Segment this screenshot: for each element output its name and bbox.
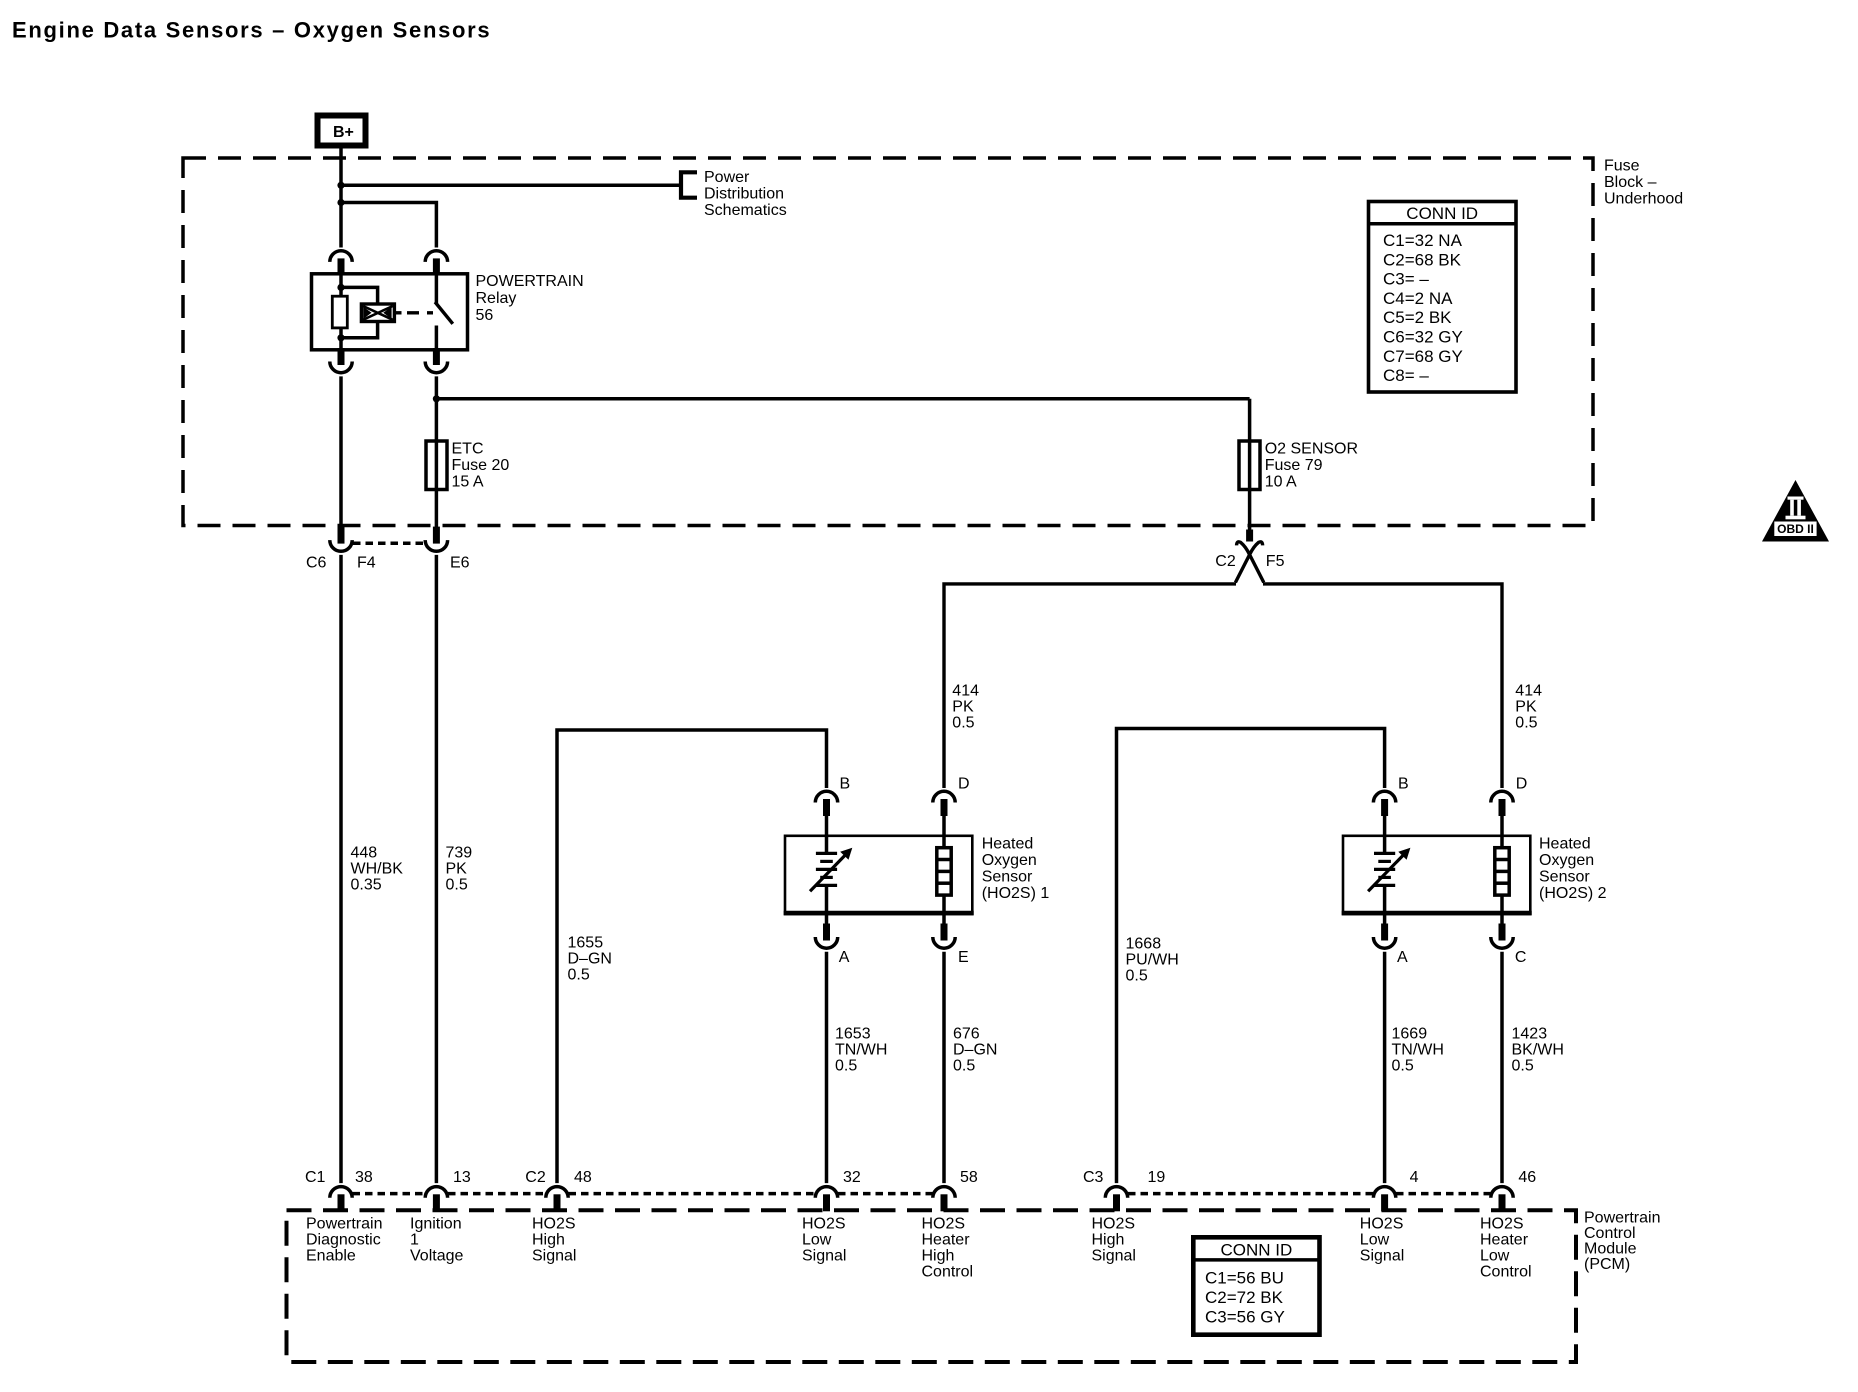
connector: relay switch pin (top right) xyxy=(425,251,447,276)
connector dashed tie C3 group xyxy=(1128,1192,1373,1196)
connector pin D (HO2S1) xyxy=(933,791,955,816)
svg-text:(HO2S) 1: (HO2S) 1 xyxy=(982,885,1050,902)
sensor element (variable cell) HO2S2 xyxy=(1368,853,1405,891)
connector pin A (HO2S2) xyxy=(1373,924,1395,949)
svg-text:0.5: 0.5 xyxy=(952,715,974,732)
svg-text:HO2S: HO2S xyxy=(802,1216,846,1233)
node: coil bottom junction xyxy=(337,334,344,341)
svg-text:F5: F5 xyxy=(1266,553,1285,570)
svg-text:4: 4 xyxy=(1410,1169,1419,1186)
svg-text:Powertrain: Powertrain xyxy=(306,1216,382,1233)
node: coil top junction xyxy=(337,284,344,291)
connector: PCM pin at x=557 xyxy=(546,1187,568,1212)
svg-text:C6=32 GY: C6=32 GY xyxy=(1383,328,1463,347)
wire: coil bottom inside relay xyxy=(339,328,343,350)
wire: junction to relay switch leg xyxy=(341,203,436,248)
svg-text:D: D xyxy=(958,775,970,792)
svg-text:19: 19 xyxy=(1148,1169,1166,1186)
splice X symbol C2/F5 xyxy=(1235,542,1263,583)
svg-text:676: 676 xyxy=(953,1026,980,1043)
wire 1423 BK/WH 0.5 xyxy=(1500,952,1504,1183)
svg-text:0.5: 0.5 xyxy=(446,877,468,894)
svg-text:Signal: Signal xyxy=(1360,1248,1404,1265)
wire: feed across to O2 sensor fuse xyxy=(436,397,1249,401)
connector E6: fuse block output xyxy=(425,527,447,552)
powertrain control module (PCM) dashed box xyxy=(287,1210,1577,1362)
svg-text:C: C xyxy=(1515,949,1527,966)
fuse: ETC Fuse 20 15 A xyxy=(426,441,447,490)
connector: relay output pin (bottom left) xyxy=(330,348,352,373)
svg-text:C3= –: C3= – xyxy=(1383,270,1429,289)
svg-text:B+: B+ xyxy=(333,124,354,141)
connector pin B (HO2S1) xyxy=(815,791,837,816)
wire: B+ down to relay xyxy=(339,149,343,248)
svg-text:HO2S: HO2S xyxy=(532,1216,576,1233)
wire 676 D-GN 0.5 xyxy=(942,952,946,1183)
svg-text:PU/WH: PU/WH xyxy=(1126,952,1179,969)
fuse: O2 SENSOR Fuse 79 10 A xyxy=(1239,441,1260,490)
svg-text:HO2S: HO2S xyxy=(922,1216,966,1233)
svg-text:High: High xyxy=(922,1248,955,1265)
CONN ID table (fuse block underhood) xyxy=(1369,202,1517,393)
svg-text:C1=56 BU: C1=56 BU xyxy=(1205,1268,1284,1287)
svg-text:HO2S: HO2S xyxy=(1480,1216,1524,1233)
wire sensor element to A pin xyxy=(1383,885,1387,924)
wire: relay output down to ETC fuse xyxy=(435,376,439,527)
fuse block - underhood dashed box xyxy=(183,158,1593,526)
svg-text:B: B xyxy=(1398,775,1409,792)
svg-text:(HO2S) 2: (HO2S) 2 xyxy=(1539,885,1607,902)
connector: PCM pin at x=341 xyxy=(330,1187,352,1212)
wire 414 PK 0.5 right branch to HO2S2 D xyxy=(1263,584,1502,788)
svg-text:0.5: 0.5 xyxy=(568,967,590,984)
svg-text:Low: Low xyxy=(802,1232,832,1249)
svg-text:OBD II: OBD II xyxy=(1777,522,1814,536)
wire heater to E pin xyxy=(942,895,946,924)
svg-text:Engine Data Sensors – Oxygen S: Engine Data Sensors – Oxygen Sensors xyxy=(12,18,491,43)
svg-text:HO2S: HO2S xyxy=(1360,1216,1404,1233)
svg-text:B: B xyxy=(840,775,851,792)
svg-text:Low: Low xyxy=(1480,1248,1510,1265)
svg-text:Oxygen: Oxygen xyxy=(982,852,1037,869)
wire 1668 PU/WH 0.5 HO2S high signal to HO2S2 B xyxy=(1117,729,1385,1184)
svg-text:0.35: 0.35 xyxy=(351,877,382,894)
svg-text:15 A: 15 A xyxy=(452,474,484,491)
svg-text:739: 739 xyxy=(446,845,473,862)
connector C2/F5 pin xyxy=(1246,530,1253,542)
svg-text:Control: Control xyxy=(1584,1225,1636,1242)
svg-text:1653: 1653 xyxy=(835,1026,871,1043)
node B+ power feed box xyxy=(318,116,366,146)
wire B pin into HO2S1 xyxy=(825,815,829,854)
svg-text:D–GN: D–GN xyxy=(953,1042,997,1059)
svg-text:C8= –: C8= – xyxy=(1383,366,1429,385)
svg-text:C1=32 NA: C1=32 NA xyxy=(1383,231,1463,250)
node: junction to power distribution xyxy=(337,182,344,189)
connector C6/F4: fuse block output xyxy=(330,527,352,552)
wire heater to C pin xyxy=(1500,895,1504,924)
svg-text:Enable: Enable xyxy=(306,1248,356,1265)
connector: PCM pin at x=1502 xyxy=(1491,1187,1513,1212)
wire 1655 D-GN 0.5 HO2S high signal to HO2S1 B xyxy=(557,730,827,1183)
relay coil element (box with X) xyxy=(361,304,394,322)
svg-text:C6: C6 xyxy=(306,555,327,572)
svg-text:E6: E6 xyxy=(450,555,470,572)
svg-text:(PCM): (PCM) xyxy=(1584,1256,1630,1273)
svg-text:TN/WH: TN/WH xyxy=(1392,1042,1444,1059)
heated oxygen sensor (HO2S) 1 box xyxy=(785,836,972,914)
connector dashed tie C1-C2 group xyxy=(353,1192,426,1196)
OBD II symbol xyxy=(1762,480,1829,542)
svg-text:HO2S: HO2S xyxy=(1092,1216,1136,1233)
wire 1653 TN/WH 0.5 xyxy=(825,952,829,1183)
svg-text:Underhood: Underhood xyxy=(1604,191,1683,208)
svg-text:BK/WH: BK/WH xyxy=(1512,1042,1564,1059)
svg-text:Diagnostic: Diagnostic xyxy=(306,1232,381,1249)
svg-text:D–GN: D–GN xyxy=(568,951,612,968)
svg-text:Fuse 79: Fuse 79 xyxy=(1265,457,1323,474)
svg-text:Control: Control xyxy=(1480,1264,1532,1281)
connector pin D (HO2S2) xyxy=(1491,791,1513,816)
svg-text:PK: PK xyxy=(446,861,468,878)
node: junction to relay switch xyxy=(337,199,344,206)
svg-text:C4=2 NA: C4=2 NA xyxy=(1383,289,1453,308)
svg-text:32: 32 xyxy=(843,1169,861,1186)
svg-text:Signal: Signal xyxy=(802,1248,846,1265)
svg-text:C2=68 BK: C2=68 BK xyxy=(1383,250,1462,269)
svg-text:Block –: Block – xyxy=(1604,174,1657,191)
svg-text:1: 1 xyxy=(410,1232,419,1249)
connector pin A (HO2S1) xyxy=(815,924,837,949)
svg-text:PK: PK xyxy=(1515,699,1537,716)
svg-text:WH/BK: WH/BK xyxy=(351,861,404,878)
svg-text:Oxygen: Oxygen xyxy=(1539,852,1594,869)
svg-text:13: 13 xyxy=(453,1169,471,1186)
svg-text:1655: 1655 xyxy=(568,935,604,952)
connector pin E (HO2S1) xyxy=(933,924,955,949)
connector: PCM pin at x=436.4 xyxy=(425,1187,447,1212)
svg-text:D: D xyxy=(1516,775,1528,792)
svg-text:POWERTRAIN: POWERTRAIN xyxy=(476,273,584,290)
svg-text:Signal: Signal xyxy=(532,1248,576,1265)
connector: relay output pin (bottom right) xyxy=(425,348,447,373)
connector: relay coil pin (top left) xyxy=(330,251,352,276)
svg-text:Voltage: Voltage xyxy=(410,1248,463,1265)
svg-text:Relay: Relay xyxy=(476,290,517,307)
svg-text:414: 414 xyxy=(1515,683,1542,700)
svg-text:C3: C3 xyxy=(1083,1169,1104,1186)
svg-text:A: A xyxy=(839,949,850,966)
svg-text:C5=2 BK: C5=2 BK xyxy=(1383,308,1452,327)
svg-text:Sensor: Sensor xyxy=(982,869,1033,886)
sensor element (variable cell) HO2S1 xyxy=(810,853,847,891)
svg-text:Fuse 20: Fuse 20 xyxy=(452,457,510,474)
wire: coil top inside relay xyxy=(339,274,343,296)
CONN ID table (PCM) xyxy=(1193,1237,1319,1334)
connector pin B (HO2S2) xyxy=(1373,791,1395,816)
svg-text:1423: 1423 xyxy=(1512,1026,1548,1043)
svg-text:Signal: Signal xyxy=(1092,1248,1136,1265)
svg-text:O2 SENSOR: O2 SENSOR xyxy=(1265,441,1358,458)
switch: relay contact xyxy=(435,274,439,304)
svg-text:PK: PK xyxy=(952,699,974,716)
svg-text:Heated: Heated xyxy=(982,835,1034,852)
wire: O2 fuse drop xyxy=(1248,399,1252,532)
wire D pin into HO2S2 xyxy=(1500,815,1504,849)
wire sensor element to A pin xyxy=(825,885,829,924)
wire D pin into HO2S1 xyxy=(942,815,946,849)
svg-text:C7=68 GY: C7=68 GY xyxy=(1383,347,1463,366)
svg-text:0.5: 0.5 xyxy=(1515,715,1537,732)
svg-text:48: 48 xyxy=(574,1169,592,1186)
connector: PCM pin at x=826.5 xyxy=(815,1187,837,1212)
svg-text:Sensor: Sensor xyxy=(1539,869,1590,886)
wire: to power distribution schematics xyxy=(341,184,680,188)
svg-text:Fuse: Fuse xyxy=(1604,158,1640,175)
svg-text:C3=56 GY: C3=56 GY xyxy=(1205,1308,1285,1327)
off-page bracket: Power Distribution Schematics xyxy=(681,172,697,197)
svg-text:38: 38 xyxy=(355,1169,373,1186)
svg-text:Schematics: Schematics xyxy=(704,202,787,219)
svg-text:C1: C1 xyxy=(305,1169,326,1186)
svg-text:Heater: Heater xyxy=(922,1232,971,1249)
svg-text:448: 448 xyxy=(351,845,378,862)
svg-text:C2: C2 xyxy=(525,1169,546,1186)
svg-text:A: A xyxy=(1397,949,1408,966)
svg-text:0.5: 0.5 xyxy=(835,1058,857,1075)
svg-text:Control: Control xyxy=(922,1264,974,1281)
svg-text:CONN ID: CONN ID xyxy=(1221,1240,1293,1259)
svg-text:Heated: Heated xyxy=(1539,835,1591,852)
svg-text:TN/WH: TN/WH xyxy=(835,1042,887,1059)
node: junction feeding O2 sensor fuse xyxy=(433,395,440,402)
svg-text:10 A: 10 A xyxy=(1265,474,1297,491)
svg-text:High: High xyxy=(532,1232,565,1249)
connector: PCM pin at x=944 xyxy=(933,1187,955,1212)
connector pin C (HO2S2) xyxy=(1491,924,1513,949)
connector: PCM pin at x=1116.5 xyxy=(1105,1187,1127,1212)
svg-text:Module: Module xyxy=(1584,1241,1637,1258)
connector: PCM pin at x=1384.6 xyxy=(1373,1187,1395,1212)
svg-text:Low: Low xyxy=(1360,1232,1390,1249)
svg-text:1669: 1669 xyxy=(1392,1026,1428,1043)
svg-text:E: E xyxy=(958,949,969,966)
svg-text:F4: F4 xyxy=(357,555,376,572)
wire 739 PK 0.5 xyxy=(435,555,439,1183)
svg-text:0.5: 0.5 xyxy=(1126,968,1148,985)
svg-text:Distribution: Distribution xyxy=(704,186,784,203)
svg-text:1668: 1668 xyxy=(1126,936,1162,953)
svg-text:58: 58 xyxy=(960,1169,978,1186)
svg-text:0.5: 0.5 xyxy=(953,1058,975,1075)
wire B pin into HO2S2 xyxy=(1383,815,1387,854)
wire: 448 circuit inside fuse block xyxy=(339,376,343,527)
wire 448 WH/BK 0.35 xyxy=(339,555,343,1183)
svg-text:C2=72 BK: C2=72 BK xyxy=(1205,1288,1284,1307)
wire: coil element stub xyxy=(394,311,401,314)
svg-text:46: 46 xyxy=(1518,1169,1536,1186)
svg-text:C2: C2 xyxy=(1215,553,1236,570)
svg-text:ETC: ETC xyxy=(452,441,484,458)
heated oxygen sensor (HO2S) 2 box xyxy=(1343,836,1530,914)
mechanical link (dashed) to switch xyxy=(407,311,433,314)
svg-text:Heater: Heater xyxy=(1480,1232,1529,1249)
heater element HO2S2 xyxy=(1495,848,1509,895)
svg-text:CONN ID: CONN ID xyxy=(1406,204,1478,223)
svg-text:414: 414 xyxy=(952,683,979,700)
svg-text:56: 56 xyxy=(476,307,494,324)
wire 414 PK 0.5 left branch to HO2S1 D xyxy=(944,584,1236,788)
svg-text:Powertrain: Powertrain xyxy=(1584,1210,1660,1227)
svg-text:Ignition: Ignition xyxy=(410,1216,462,1233)
svg-text:0.5: 0.5 xyxy=(1392,1058,1414,1075)
svg-text:Power: Power xyxy=(704,169,750,186)
relay: POWERTRAIN Relay 56 box xyxy=(312,274,468,350)
svg-text:High: High xyxy=(1092,1232,1125,1249)
connector dashed tie C6-E6 xyxy=(353,541,424,545)
svg-text:0.5: 0.5 xyxy=(1512,1058,1534,1075)
wire 1669 TN/WH 0.5 xyxy=(1383,952,1387,1183)
wire: parallel branch to coil element xyxy=(341,287,378,304)
heater element HO2S1 xyxy=(937,848,951,895)
resistor: relay coil suppression resistor xyxy=(332,296,347,328)
